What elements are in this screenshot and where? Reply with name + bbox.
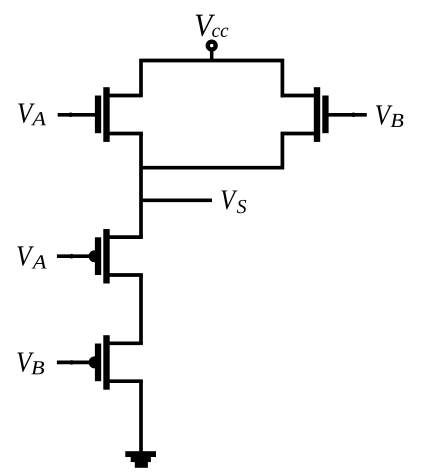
Q2 gate lead wire (328, 113, 367, 117)
label Vcc (196, 15, 229, 37)
wire VS tap (141, 198, 212, 202)
wire Q4 source to ground (139, 381, 143, 452)
Q2 gate lead junction dot (351, 113, 356, 118)
Q3 gate lead junction dot (69, 254, 74, 259)
Q3 channel bar (103, 229, 109, 284)
transistor Q1 (gate VA, pull-up left) (58, 87, 143, 142)
Q1 gate bar (95, 96, 101, 134)
ground (125, 451, 156, 468)
Q4 source lead wire (106, 379, 143, 383)
Q2 drain lead wire (282, 94, 317, 98)
label VB upper (376, 105, 403, 127)
Q4 gate lead wire (57, 361, 92, 365)
Q2 source lead wire (281, 132, 318, 136)
label VS (221, 190, 246, 213)
Q4 gate bar (95, 344, 101, 382)
Q3 gate contact dot (89, 250, 101, 262)
Q3 source lead wire (106, 273, 143, 277)
Q4 drain lead wire (106, 341, 143, 345)
Q1 channel bar (103, 87, 109, 142)
Q1 drain lead wire (106, 94, 141, 98)
transistor Q4 (gate VB, series stack) (57, 335, 143, 390)
Vcc supply terminal (208, 42, 216, 61)
Q3 gate bar (95, 237, 101, 275)
transistor Q3 (gate VA, series stack) (57, 229, 143, 284)
label VA lower (17, 246, 46, 268)
wire left spine (Q1 source down to Q3 drain) (139, 134, 143, 238)
Q1 gate lead wire (58, 113, 96, 117)
Q1 gate lead junction dot (68, 113, 73, 118)
label VB lower (17, 353, 44, 375)
wire Vcc rail (141, 61, 282, 98)
Q4 gate lead junction dot (69, 360, 74, 365)
transistor Q2 (gate VB, pull-up right) (281, 87, 367, 142)
Q2 channel bar (314, 87, 320, 142)
Q3 drain lead wire (106, 235, 143, 239)
Q4 channel bar (103, 335, 109, 390)
Q3 gate lead wire (57, 254, 92, 258)
label VA upper (18, 104, 46, 126)
Q1 source lead wire (106, 132, 143, 136)
Q4 gate contact dot (89, 356, 101, 368)
wire Q3 source to Q4 drain (139, 275, 143, 343)
wire source join (Q2 source down and across to node S) (141, 134, 282, 168)
Q2 gate bar (322, 96, 328, 134)
